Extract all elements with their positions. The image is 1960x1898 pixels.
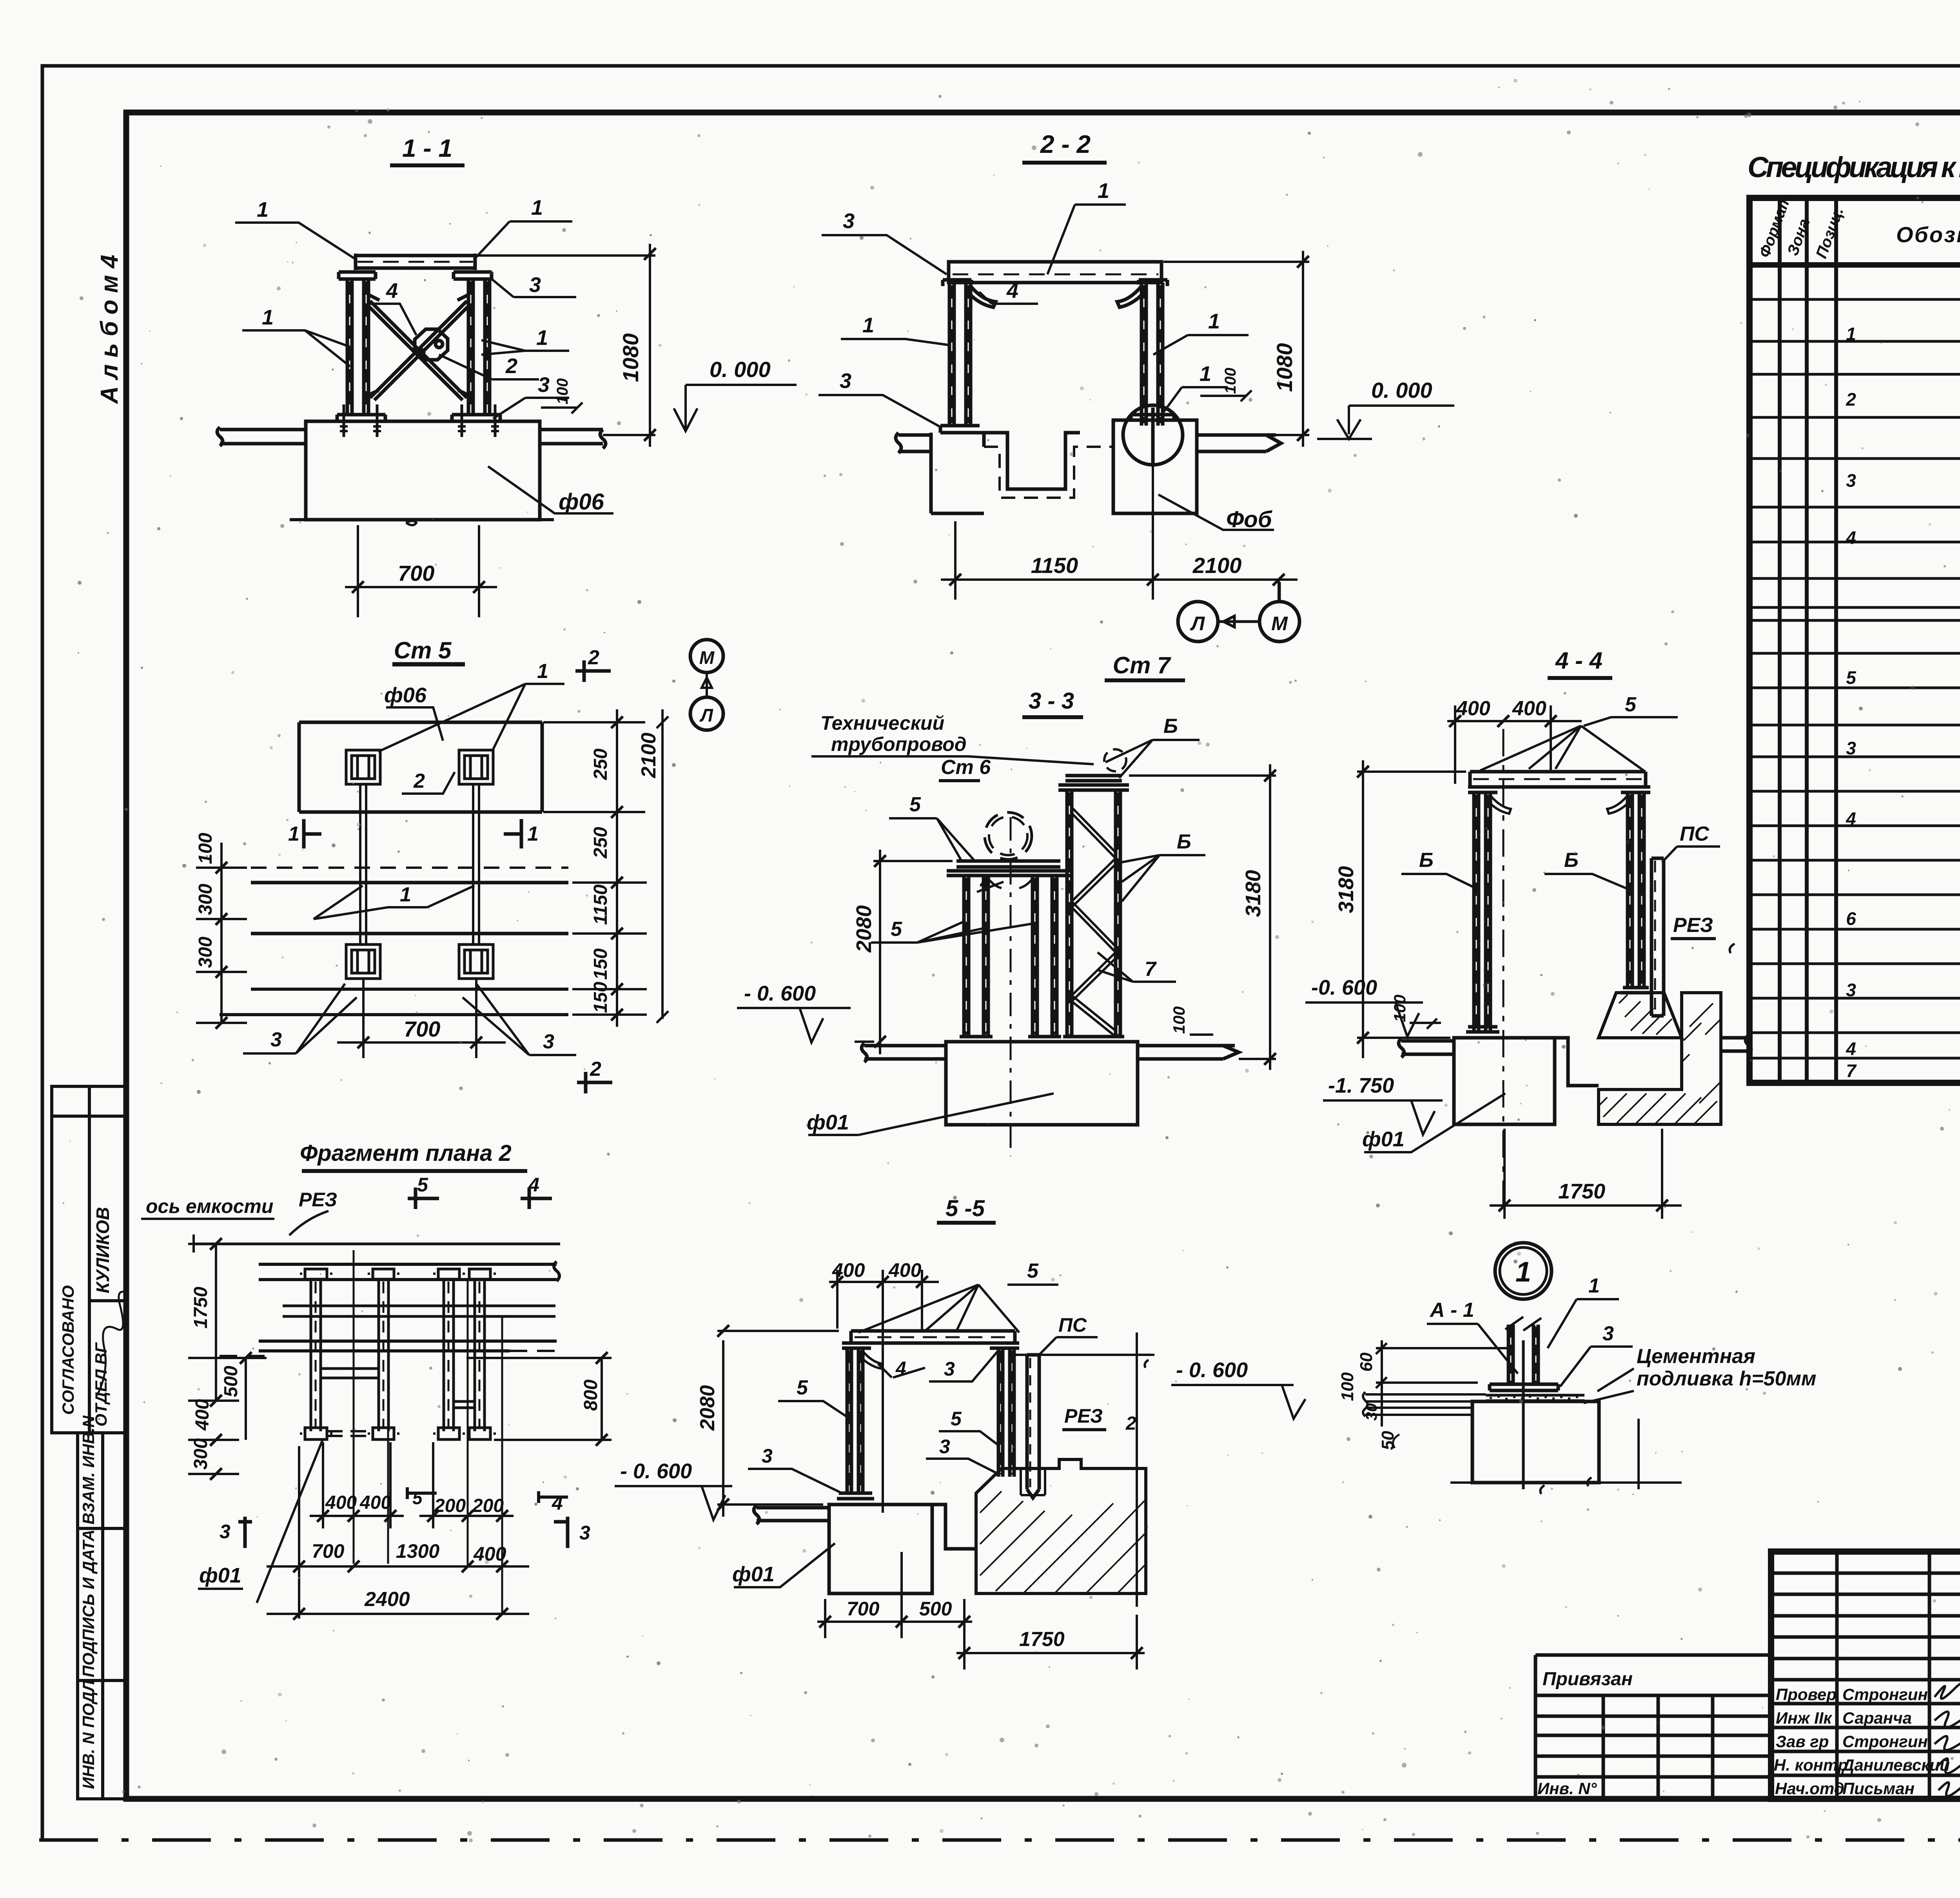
spec table contents: [1846, 276, 1960, 1085]
foundation block: [946, 1042, 1138, 1125]
right foundation: [1113, 420, 1197, 513]
svg-text:ВЗАМ. ИНВ.N: ВЗАМ. ИНВ.N: [79, 1415, 98, 1525]
leader 1 left: [841, 314, 948, 345]
svg-text:подливка h=50мм: подливка h=50мм: [1637, 1367, 1816, 1390]
roof fan lines: [858, 1285, 1019, 1332]
svg-text:100: 100: [1338, 1372, 1357, 1401]
svg-text:1: 1: [257, 198, 269, 221]
leader 3 bottom-right: [463, 984, 576, 1055]
leader 3 left lower: [818, 369, 941, 427]
svg-text:ПС: ПС: [1058, 1314, 1087, 1336]
svg-text:Фрагмент плана 2: Фрагмент плана 2: [300, 1140, 512, 1166]
REZ label: [1062, 1405, 1136, 1434]
grout layer: [1486, 1395, 1584, 1401]
dim 1080 right: [477, 244, 656, 447]
label f01: [198, 1440, 323, 1603]
spec table grid: [1749, 198, 1960, 1083]
leader 3 top: [929, 1351, 998, 1381]
corner bracket right: [1117, 286, 1146, 307]
beam dashed centerline: [358, 261, 473, 263]
svg-text:1750: 1750: [191, 1287, 211, 1329]
svg-text:6: 6: [1846, 908, 1856, 929]
svg-text:5: 5: [909, 793, 921, 816]
svg-text:5: 5: [1027, 1260, 1039, 1282]
corner bracket: [859, 1351, 882, 1369]
svg-text:3: 3: [538, 373, 550, 397]
left column: [949, 283, 971, 426]
dim 1080: [1163, 251, 1309, 447]
st6 base plates: [958, 1037, 1063, 1042]
svg-text:3: 3: [939, 1436, 950, 1457]
foundation bottom ground line: [290, 518, 554, 521]
svg-text:ф06: ф06: [559, 489, 604, 515]
svg-text:- 0. 600: - 0. 600: [1176, 1358, 1248, 1382]
4-4 title: [1548, 647, 1612, 678]
svg-text:400: 400: [192, 1399, 213, 1431]
leader B top: [1105, 715, 1200, 778]
left column: [847, 1348, 863, 1493]
left dim stack 100 300 300: [195, 833, 247, 1029]
svg-text:5: 5: [891, 918, 902, 941]
leader label 3 base: [493, 373, 569, 419]
svg-text:2400: 2400: [364, 1588, 410, 1611]
svg-text:3: 3: [220, 1521, 230, 1543]
svg-text:1750: 1750: [1558, 1180, 1605, 1203]
left base + foundation: [940, 426, 993, 433]
svg-text:1: 1: [1098, 179, 1109, 203]
roof fan lines: [1480, 726, 1644, 770]
dims 60 100 30 50: [1338, 1340, 1509, 1450]
REZ label: [1671, 914, 1735, 953]
svg-text:ф01: ф01: [732, 1563, 775, 1586]
corner brackets: [1486, 796, 1632, 814]
title block texts: [1774, 1578, 1960, 1798]
svg-text:250: 250: [590, 827, 611, 859]
svg-text:2: 2: [505, 354, 517, 378]
leader B left: [1401, 849, 1475, 888]
column flange lines down: [360, 784, 479, 944]
svg-text:3: 3: [944, 1358, 955, 1380]
base plate: [1490, 1384, 1558, 1390]
svg-text:100: 100: [1170, 1006, 1188, 1034]
svg-text:1: 1: [1515, 1256, 1531, 1288]
svg-text:300: 300: [195, 937, 216, 968]
tank wall lines: [251, 883, 568, 934]
long section verticals: [354, 1250, 502, 1614]
st7 lattice bracing: [1072, 807, 1116, 1037]
svg-text:Н. контр: Н. контр: [1774, 1756, 1848, 1774]
privyazan block: [1535, 1655, 1771, 1799]
right pedestal hatched: [1599, 993, 1682, 1038]
leader 5 top: [889, 793, 974, 862]
label f01: [807, 1093, 1054, 1135]
svg-text:1: 1: [537, 660, 548, 683]
svg-text:700: 700: [398, 561, 434, 586]
floor slab left: [217, 427, 306, 446]
svg-text:2: 2: [1846, 389, 1856, 410]
floor slab right: [1138, 1046, 1239, 1059]
dim 100 left: [1390, 995, 1441, 1029]
level 0.000: [1317, 378, 1454, 439]
section marks 1T T1: [288, 819, 539, 848]
svg-text:0. 000: 0. 000: [710, 357, 771, 382]
right base plate: [452, 415, 500, 421]
left column cap plate: [339, 272, 376, 279]
left dim stack: [188, 1238, 267, 1480]
right hatched mass: [976, 1459, 1146, 1593]
svg-text:5: 5: [417, 1174, 428, 1196]
svg-text:1: 1: [1208, 310, 1220, 333]
svg-text:4 - 4: 4 - 4: [1555, 647, 1602, 674]
svg-text:150: 150: [590, 948, 611, 980]
right column: [1628, 792, 1644, 988]
svg-text:-0. 600: -0. 600: [1311, 976, 1377, 999]
left column: [1474, 792, 1490, 1032]
leader 4 bracket: [979, 279, 1038, 304]
svg-text:ось емкости: ось емкости: [146, 1195, 273, 1217]
st6 right column: [1033, 876, 1057, 1037]
leader 4: [878, 1358, 925, 1379]
level -1.750: [1323, 1074, 1443, 1135]
svg-text:РЕЗ: РЕЗ: [1064, 1405, 1103, 1427]
leader 3 left base: [748, 1445, 844, 1494]
right column cap plate: [454, 272, 492, 279]
left foundation block: [829, 1505, 932, 1593]
svg-text:Стронгин: Стронгин: [1842, 1685, 1928, 1704]
svg-text:ф01: ф01: [1362, 1128, 1405, 1151]
svg-text:100: 100: [554, 378, 571, 404]
tank wall band top: [259, 1262, 559, 1281]
svg-text:А л ь б о м 4: А л ь б о м 4: [96, 255, 123, 404]
svg-text:ф06: ф06: [384, 683, 427, 707]
bottom dims row2 700 1300 400: [267, 1446, 529, 1619]
svg-text:Л: Л: [1190, 613, 1205, 634]
st6 label: [939, 756, 991, 781]
leader 3 bottom-left: [243, 984, 357, 1053]
svg-text:3: 3: [543, 1030, 554, 1053]
svg-text:Инж IIк: Инж IIк: [1776, 1709, 1833, 1727]
slab right of wall: [1721, 1035, 1751, 1054]
svg-text:Зав гр: Зав гр: [1776, 1732, 1829, 1751]
st6 cap beam: [947, 861, 1070, 876]
leader 4: [977, 872, 1004, 893]
foundation outline band: [299, 722, 542, 812]
svg-text:1080: 1080: [618, 333, 643, 382]
level -0.600: [615, 1459, 732, 1520]
svg-text:- 0. 600: - 0. 600: [744, 982, 816, 1005]
svg-text:500: 500: [919, 1598, 952, 1620]
anchor bolts: [344, 404, 495, 437]
leader 5 mid: [871, 918, 1037, 943]
beam: [851, 1331, 1015, 1343]
column stub: [1505, 1317, 1541, 1384]
right dim stack 250 250 1150 150 150 and 2100: [543, 709, 668, 1027]
leader 1 mid: [314, 883, 474, 919]
svg-text:РЕЗ: РЕЗ: [1673, 914, 1713, 937]
X bracing: [368, 301, 468, 400]
leader 1 top: [1047, 179, 1126, 274]
svg-text:1150: 1150: [1031, 553, 1078, 578]
dashed axis right part: [220, 1351, 564, 1356]
floor slab right with arrow: [1197, 435, 1281, 451]
leader 7: [1098, 952, 1176, 982]
bottom dims row1 200 200: [419, 1442, 514, 1528]
floor slab right: [540, 430, 606, 448]
left margin stamp boxes: [52, 1086, 126, 1799]
signatures in title block: [1935, 1681, 1960, 1796]
node bubble: [1495, 1243, 1552, 1299]
svg-text:5: 5: [1846, 667, 1857, 688]
floor slab left: [862, 1043, 946, 1062]
st7 pipe circle: [1104, 749, 1126, 771]
svg-text:Провер: Провер: [1776, 1685, 1837, 1704]
svg-text:4: 4: [1846, 1039, 1856, 1059]
level -0.600 (between 3-3 and 4-4): [1305, 976, 1423, 1037]
svg-text:ПОДПИСЬ И ДАТА: ПОДПИСЬ И ДАТА: [79, 1530, 98, 1678]
svg-text:М: М: [1271, 613, 1288, 634]
ties between pair columns: [321, 1369, 475, 1408]
svg-text:5: 5: [412, 1488, 423, 1508]
svg-text:5: 5: [797, 1376, 808, 1399]
leader label 4 gusset: [368, 279, 416, 335]
plan st5 title: [392, 637, 465, 664]
5-5 title: [937, 1196, 996, 1223]
svg-text:1: 1: [262, 306, 274, 329]
section mark 2 bottom: [577, 1058, 612, 1093]
svg-text:100: 100: [1222, 368, 1239, 394]
svg-text:4: 4: [386, 279, 398, 303]
svg-text:3: 3: [840, 369, 851, 393]
svg-text:СОГЛАСОВАНО: СОГЛАСОВАНО: [59, 1285, 77, 1415]
base plate squares: [300, 1428, 496, 1439]
svg-text:400: 400: [888, 1259, 922, 1281]
svg-text:5: 5: [951, 1408, 962, 1430]
svg-text:Ст 6: Ст 6: [941, 756, 991, 779]
leader B right: [1544, 849, 1628, 889]
leader 1: [1548, 1274, 1619, 1348]
svg-text:Данилевский: Данилевский: [1841, 1756, 1950, 1774]
axis label os emkosti: [141, 1189, 337, 1235]
svg-text:2100: 2100: [637, 732, 660, 778]
left base plate: [1466, 1027, 1499, 1032]
view 2-2 title: [1022, 130, 1107, 163]
leader 3: [1560, 1322, 1633, 1387]
leader 5 left mid: [778, 1376, 850, 1419]
st6 centerline: [1010, 817, 1012, 1156]
left column shaft: [347, 279, 368, 415]
foundation block: [306, 421, 540, 520]
svg-text:3: 3: [1846, 470, 1856, 491]
leader 3 right base: [926, 1436, 998, 1474]
st6 left column: [964, 876, 988, 1037]
svg-text:2: 2: [588, 646, 599, 669]
anchor bolt in circle: [1151, 408, 1155, 466]
svg-text:1750: 1750: [1019, 1628, 1065, 1651]
right wall mass hatched: [1599, 993, 1721, 1125]
svg-text:3180: 3180: [1241, 870, 1265, 917]
floor slab layers left: [1363, 1392, 1486, 1416]
leader label 3 right cap: [491, 273, 576, 297]
svg-text:5: 5: [1625, 693, 1637, 716]
dim 2080: [852, 850, 953, 1054]
svg-text:1: 1: [862, 314, 874, 337]
svg-text:1: 1: [1846, 324, 1856, 344]
floor slab left stub: [896, 433, 931, 453]
svg-text:1: 1: [1200, 362, 1211, 386]
dim 1750 bottom: [1490, 1129, 1682, 1219]
leader label 1 left mid: [242, 306, 350, 366]
svg-text:60: 60: [1357, 1352, 1376, 1372]
axis line: [194, 1243, 560, 1245]
dim 100: [1200, 368, 1252, 401]
svg-text:Нач.отд: Нач.отд: [1775, 1779, 1844, 1798]
level -0.600 left: [737, 982, 851, 1042]
st7 tower columns: [1067, 790, 1120, 1037]
right base plate plan (top): [459, 750, 493, 784]
svg-text:Стронгин: Стронгин: [1842, 1732, 1928, 1751]
bottom dims 700 500 1750: [817, 1552, 1145, 1670]
svg-text:ф01: ф01: [199, 1564, 241, 1587]
svg-text:200: 200: [472, 1496, 504, 1516]
svg-text:Технический: Технический: [820, 712, 944, 734]
leader 5 right mid: [939, 1408, 1000, 1446]
svg-text:7: 7: [1145, 958, 1157, 981]
level mark 0.000: [674, 357, 797, 431]
st7 title: [1105, 652, 1185, 680]
svg-text:3 - 3: 3 - 3: [1029, 688, 1074, 714]
right base plate: [1131, 415, 1174, 420]
label f01: [732, 1543, 835, 1587]
dim 700 bottom: [345, 525, 497, 617]
svg-text:ПС: ПС: [1680, 823, 1710, 845]
svg-text:Б: Б: [1177, 830, 1191, 853]
label f06 foundation: [488, 466, 613, 515]
grid bubbles L M: [1178, 582, 1299, 642]
svg-text:300: 300: [191, 1438, 211, 1470]
svg-text:1: 1: [527, 823, 539, 845]
right cap plate: [990, 1343, 1019, 1348]
svg-text:Саранча: Саранча: [1842, 1709, 1912, 1727]
svg-text:Спецификация к металлически: Спецификация к металлическим опорам Ст5.…: [1748, 151, 1960, 183]
svg-text:Письман: Письман: [1842, 1779, 1915, 1798]
svg-text:3: 3: [1846, 980, 1856, 1000]
detail circle: [1123, 405, 1183, 465]
spec table header labels: [1756, 192, 1960, 261]
svg-text:400: 400: [473, 1543, 506, 1565]
svg-text:Фоб: Фоб: [1226, 507, 1273, 532]
left base plate plan (bottom): [346, 944, 380, 979]
leader 5 roof: [1007, 1260, 1058, 1285]
level -0.600: [1171, 1358, 1305, 1419]
svg-text:400: 400: [1512, 697, 1546, 720]
bottom dims 1150 / 2100: [941, 466, 1298, 602]
svg-text:2: 2: [413, 770, 425, 792]
st7 base plates: [1061, 1037, 1126, 1042]
svg-text:250: 250: [590, 749, 611, 780]
svg-text:3: 3: [270, 1028, 282, 1051]
svg-text:700: 700: [312, 1540, 345, 1562]
svg-text:30: 30: [1363, 1403, 1380, 1421]
svg-text:1080: 1080: [1272, 343, 1297, 392]
svg-text:2080: 2080: [696, 1385, 719, 1431]
trench between foundations: [993, 433, 1080, 489]
corner bracket left: [966, 286, 996, 307]
fragment plan title: [300, 1140, 527, 1171]
svg-text:4: 4: [1846, 528, 1856, 548]
left base plate plan (top): [346, 750, 380, 784]
svg-text:Л: Л: [699, 705, 713, 725]
svg-text:РЕЗ: РЕЗ: [299, 1189, 337, 1211]
svg-text:1: 1: [288, 823, 299, 845]
section marks 3: [220, 1517, 590, 1548]
svg-text:Привязан: Привязан: [1543, 1669, 1633, 1690]
svg-text:Ст 5: Ст 5: [394, 637, 452, 663]
svg-text:ф01: ф01: [807, 1111, 849, 1134]
PS label: [1038, 1314, 1098, 1356]
svg-text:-1. 750: -1. 750: [1328, 1074, 1394, 1097]
top square marks: [300, 1269, 496, 1279]
cap plates: [1468, 787, 1650, 792]
svg-text:1: 1: [400, 883, 411, 906]
dim 400 400: [829, 1259, 939, 1513]
dim 3180 right: [1129, 764, 1276, 1070]
trench step: [1555, 1038, 1599, 1086]
right base plate plan (bottom): [459, 944, 493, 979]
svg-text:2100: 2100: [1192, 553, 1242, 578]
svg-text:700: 700: [404, 1017, 440, 1041]
brace gusset center: [415, 329, 448, 360]
svg-text:400: 400: [325, 1492, 357, 1513]
svg-text:Б: Б: [1163, 715, 1178, 738]
leader 1 top pair: [378, 660, 564, 752]
left foundation block: [1454, 1038, 1555, 1124]
svg-text:4: 4: [552, 1492, 563, 1514]
svg-text:2: 2: [590, 1058, 601, 1080]
dim 400 400 top: [1447, 697, 1582, 784]
svg-text:Цементная: Цементная: [1637, 1345, 1755, 1368]
svg-text:1 - 1: 1 - 1: [402, 134, 452, 162]
svg-text:Ст 7: Ст 7: [1113, 652, 1171, 678]
svg-text:400: 400: [832, 1259, 865, 1281]
section marks 5 and 4 above: [408, 1174, 552, 1209]
left cap plate: [842, 1343, 871, 1348]
svg-text:3: 3: [579, 1522, 590, 1544]
left base plate: [837, 1493, 874, 1499]
dim 2080 left: [696, 1325, 839, 1517]
leader label 1 top-left: [235, 198, 355, 259]
view 1-1 title: [390, 134, 465, 165]
svg-text:1: 1: [536, 326, 548, 350]
leader label 1 top-right: [475, 196, 572, 258]
leader 2: [402, 770, 455, 794]
svg-text:1: 1: [531, 196, 543, 219]
label f06: [384, 683, 443, 741]
svg-text:3: 3: [1846, 738, 1856, 758]
beam top chord: [356, 254, 475, 270]
leader 5 roof: [1584, 693, 1678, 726]
centerline axis: [1503, 729, 1504, 1215]
svg-text:Обозначение: Обозначение: [1896, 222, 1960, 247]
right base plate on pedestal: [1621, 988, 1651, 993]
3-3 title: [1022, 688, 1083, 717]
pedestal notch for bar: [1021, 1468, 1045, 1495]
section line 2 right: [1136, 1332, 1138, 1607]
left base plate: [337, 415, 385, 421]
section mark 2 top: [575, 646, 611, 682]
st6 corner brackets: [988, 879, 1033, 888]
svg-text:200: 200: [434, 1496, 466, 1516]
label f01: [1362, 1093, 1505, 1152]
